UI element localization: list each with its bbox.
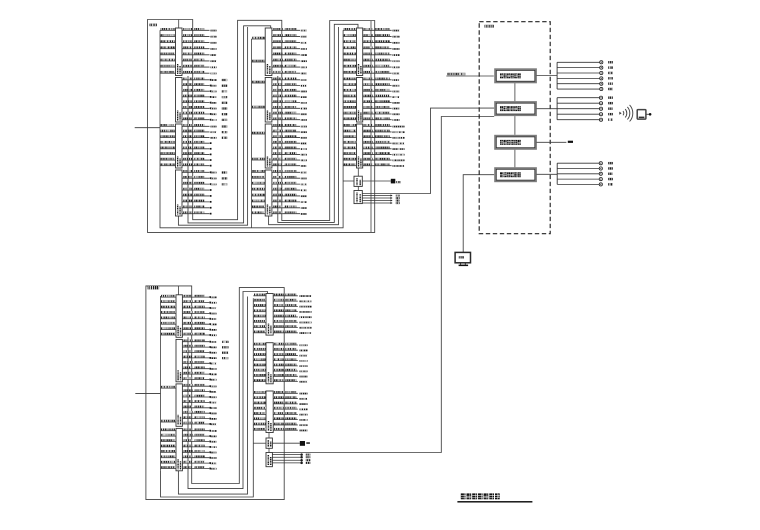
wire branch feed row (343, 147, 356, 149)
wire switch to speaker bus2 (536, 108, 557, 110)
wire branch circuit row (273, 294, 311, 297)
wire branch circuit row (272, 117, 307, 120)
wire branch circuit row (182, 152, 212, 155)
wire branch circuit row (182, 322, 216, 325)
distribution box 5AL3 (266, 391, 273, 433)
speaker fan-out group: zone3 (557, 162, 613, 186)
wire branch feed row (252, 60, 266, 62)
wire branch circuit row (272, 206, 307, 209)
wire loop block1 box4 to block2 (178, 27, 247, 225)
wire branch feed row (343, 34, 356, 36)
wire branch circuit row (363, 130, 405, 133)
wire branch circuit row (363, 163, 405, 166)
wire branch circuit row (182, 311, 216, 314)
wire branch feed row (161, 428, 177, 430)
wire branch circuit row (182, 141, 212, 144)
wire audio output row (272, 462, 310, 465)
wire branch feed row (252, 200, 266, 202)
wire branch circuit row (272, 112, 307, 115)
distribution box 4AL3 (176, 384, 182, 426)
wire module A to module B (357, 186, 359, 190)
wire branch circuit row (272, 106, 307, 109)
wire program host to speaker bus1 (536, 75, 557, 77)
equipment box: central control host (495, 168, 536, 181)
wire branch circuit row (182, 34, 217, 37)
wire branch feed row (160, 65, 176, 67)
wire branch circuit row (273, 358, 307, 361)
wire module C to module D (268, 448, 270, 452)
wire branch circuit row (272, 124, 307, 127)
wire branch circuit row (363, 152, 405, 155)
wire branch feed row (160, 59, 176, 61)
wire branch circuit row (273, 343, 307, 346)
module box 5AT1 (266, 438, 272, 448)
wire branch circuit row (182, 147, 212, 150)
wire branch circuit row (363, 124, 405, 127)
wire branch circuit row (272, 46, 307, 49)
wire branch feed row (161, 311, 177, 313)
wire branch circuit row (182, 176, 227, 180)
wire branch circuit row (182, 206, 212, 209)
monitor / control PC icon (455, 252, 470, 266)
wire branch circuit row (363, 71, 400, 74)
wire branch feed row (253, 374, 266, 376)
wire branch circuit row (363, 83, 400, 86)
wire branch feed row (253, 304, 266, 306)
wire branch circuit row (363, 106, 400, 109)
wire branch feed row (253, 412, 266, 414)
wire branch feed row (343, 83, 356, 85)
wire branch circuit row (272, 89, 307, 92)
distribution box 2AL4 (265, 170, 272, 216)
wire branch circuit row (182, 361, 216, 364)
wire branch circuit row (273, 407, 307, 410)
wire speaker line (557, 61, 613, 64)
wire branch circuit row (273, 353, 307, 356)
wire branch circuit row (182, 345, 228, 349)
distribution box 3AL1 (357, 28, 363, 76)
wire branch circuit row (182, 372, 216, 375)
wire branch circuit row (182, 89, 227, 93)
wire branch feed row (161, 455, 177, 457)
wire branch circuit row (272, 71, 307, 74)
wireless source dot (619, 112, 621, 115)
wire branch circuit row (363, 89, 400, 92)
wire branch feed row (343, 106, 356, 108)
wire audio output row (272, 459, 310, 462)
wire speaker line (557, 113, 613, 116)
wire branch circuit row (272, 141, 307, 144)
wire speaker line (557, 82, 613, 85)
wire branch feed row (161, 466, 177, 468)
wire branch circuit row (363, 117, 400, 120)
wire branch feed row (253, 407, 266, 409)
wire branch circuit row (363, 28, 400, 31)
wire branch circuit row (363, 100, 400, 103)
wire branch feed row (160, 71, 176, 73)
wireless transmitter waves (623, 105, 633, 122)
drawing title (461, 493, 466, 499)
wire branch feed row (161, 386, 177, 388)
wire branch feed row (252, 170, 266, 172)
wire branch feed row (161, 322, 177, 324)
wire branch circuit row (182, 384, 216, 387)
wire branch feed row (253, 402, 266, 404)
wire branch circuit row (272, 194, 307, 197)
wire branch circuit row (182, 366, 216, 369)
wire loop block1 inner to block2 (188, 26, 271, 223)
distribution box 1AL2 (176, 78, 183, 123)
wire branch feed row (343, 135, 356, 137)
wire branch feed row (253, 294, 266, 296)
wire branch feed row (253, 423, 266, 425)
wire branch circuit row (272, 100, 307, 103)
wire branch feed row (161, 439, 177, 441)
wire branch feed row (252, 194, 266, 196)
wire branch circuit row (182, 188, 212, 191)
wire branch feed row (161, 434, 177, 436)
speaker fan-out group: zone2 (557, 96, 613, 121)
wire branch circuit row (273, 309, 311, 312)
wire branch circuit row (273, 428, 307, 431)
wire branch feed row (161, 300, 177, 302)
wire trunk block1 bus to block3 bus (160, 30, 343, 228)
wire branch circuit row (182, 53, 217, 56)
wire branch feed row (160, 147, 176, 149)
wire branch circuit row (363, 46, 400, 49)
wire branch circuit row (273, 402, 307, 405)
wire branch feed row (160, 158, 176, 160)
wire branch feed row (343, 163, 356, 165)
wire branch circuit row (273, 325, 311, 328)
wire branch circuit row (272, 130, 307, 133)
wire branch feed row (343, 152, 356, 154)
wire branch circuit row (182, 130, 227, 134)
wire speaker line (557, 183, 613, 186)
wire branch feed row (253, 358, 266, 360)
equipment box: video server (495, 136, 536, 149)
wire block2 left bus (251, 39, 253, 228)
wire branch feed row (343, 100, 356, 102)
wire branch circuit row (182, 411, 216, 414)
wire branch circuit row (273, 396, 307, 399)
wire branch circuit row (272, 182, 307, 185)
wire branch feed row (253, 343, 266, 345)
title underline (457, 501, 532, 503)
wire monitor to control host (463, 175, 494, 253)
wire speaker line (557, 118, 613, 121)
wire branch circuit row (273, 299, 311, 302)
dashed equipment room boundary (479, 22, 550, 234)
wire branch feed row (253, 299, 266, 301)
distribution box 3AL2 (357, 78, 363, 123)
module box 3AT2 (354, 191, 362, 204)
wire branch circuit row (182, 163, 212, 166)
wire branch feed row (253, 396, 266, 398)
wire speaker line (557, 102, 613, 105)
wire branch circuit row (182, 194, 212, 197)
wire branch feed row (252, 81, 266, 83)
wire branch circuit row (273, 412, 307, 415)
wire branch feed row (343, 71, 356, 73)
wire branch circuit row (182, 135, 227, 139)
wire block4 bus to block5 bus (161, 298, 254, 497)
wire branch circuit row (272, 170, 307, 173)
equipment box: network switch (495, 102, 536, 115)
wire branch feed row (252, 106, 266, 108)
wire branch feed row (160, 152, 176, 154)
wire branch circuit row (182, 450, 216, 453)
wire block3 inner right vertical (370, 21, 372, 232)
wire branch circuit row (273, 374, 307, 377)
wire control output row (362, 202, 399, 204)
room label (485, 25, 494, 28)
wire branch circuit row (272, 176, 307, 179)
wire branch feed row (160, 135, 176, 137)
wire branch feed row (160, 28, 176, 30)
wire branch feed row (161, 420, 177, 422)
wire branch circuit row (182, 455, 216, 458)
wire branch circuit row (363, 78, 400, 81)
wire speaker line (557, 71, 613, 74)
wire branch circuit row (182, 59, 217, 62)
wire module A to speaker terminal (362, 180, 391, 182)
wire video server output (536, 141, 566, 143)
wire branch feed row (160, 34, 176, 36)
wire branch circuit row (182, 416, 216, 419)
speaker fan-out group: zone1 (557, 61, 613, 91)
wire branch circuit row (363, 95, 400, 98)
wire loop block2 box4 to block3 (269, 27, 339, 225)
wire loop block4 inner to block5 (188, 292, 268, 489)
wire branch circuit row (273, 417, 307, 420)
wire branch feed row (161, 445, 177, 447)
wire branch circuit row (182, 327, 216, 330)
wire branch circuit row (363, 34, 400, 37)
wire branch circuit row (182, 124, 227, 128)
wire branch feed row (343, 158, 356, 160)
wire branch circuit row (182, 211, 212, 214)
distribution box 2AL3 (265, 124, 272, 168)
speaker terminal (filled) bottom (300, 441, 310, 446)
wire branch feed row (343, 95, 356, 97)
wire branch feed row (161, 295, 177, 297)
wire branch circuit row (182, 65, 217, 68)
wire speaker line (557, 172, 613, 175)
wire branch feed row (252, 188, 266, 190)
wire branch circuit row (182, 434, 216, 437)
wire branch feed row (252, 37, 266, 39)
wire branch circuit row (363, 40, 400, 43)
wire branch feed row (253, 325, 266, 327)
distribution box 4AL1 (176, 295, 182, 338)
wireless receiver device (637, 110, 651, 120)
wire branch circuit row (182, 439, 216, 442)
wire branch circuit row (182, 428, 216, 431)
wire branch circuit row (272, 34, 307, 37)
wire branch circuit row (272, 158, 307, 161)
wire speaker line (557, 66, 613, 69)
wire branch circuit row (272, 135, 307, 138)
wire branch feed row (343, 124, 356, 126)
wire branch circuit row (272, 163, 307, 166)
wire branch circuit row (273, 369, 307, 372)
distribution box 1AL1 (176, 28, 183, 76)
wire ring around bottom riser blocks (146, 286, 284, 500)
wire branch circuit row (272, 40, 307, 43)
wire branch feed row (253, 320, 266, 322)
wire speaker line (557, 87, 613, 90)
wire branch feed row (160, 141, 176, 143)
wire branch circuit row (182, 46, 217, 49)
wire branch circuit row (182, 83, 227, 87)
wire branch feed row (253, 315, 266, 317)
wire branch feed row (252, 176, 266, 178)
wire branch circuit row (182, 466, 216, 469)
wire branch feed row (253, 428, 266, 430)
distribution box 3AL3 (357, 124, 363, 168)
wire branch circuit row (182, 78, 227, 82)
distribution box 5AL1 (266, 294, 273, 336)
wire branch circuit row (272, 28, 307, 31)
wire block1 box1 top feed (178, 20, 180, 29)
wire branch feed row (161, 333, 177, 335)
wire branch feed row (343, 130, 356, 132)
wire branch circuit row (272, 59, 307, 62)
wire branch feed row (161, 450, 177, 452)
wire branch circuit row (272, 188, 307, 191)
distribution box 4AL4 (176, 428, 182, 470)
wire branch circuit row (272, 211, 307, 214)
wire branch circuit row (182, 461, 216, 464)
wire branch circuit row (363, 135, 405, 138)
wire branch circuit row (272, 147, 307, 150)
wire branch feed row (252, 132, 266, 134)
wire branch circuit row (363, 59, 400, 62)
wire branch feed row (160, 163, 176, 165)
wire branch circuit row (182, 339, 228, 343)
wire speaker line (557, 96, 613, 99)
wire box3 bottom to module A (357, 168, 359, 176)
equipment box: program play host (495, 69, 536, 82)
wire branch feed row (343, 78, 356, 80)
distribution box 2AL1 (265, 28, 272, 76)
wire branch circuit row (182, 158, 212, 161)
distribution box 1AL3 (176, 124, 183, 168)
wire branch circuit row (182, 100, 227, 104)
wire branch feed row (343, 141, 356, 143)
wire branch feed row (343, 53, 356, 55)
wire speaker line (557, 107, 613, 110)
wire branch feed row (343, 28, 356, 30)
wire branch circuit row (363, 112, 400, 115)
wire speaker line (557, 162, 613, 165)
wire branch circuit row (363, 53, 400, 56)
wire branch feed row (343, 112, 356, 114)
wire branch feed row (160, 40, 176, 42)
wire bus to module A (343, 180, 354, 182)
wire branch circuit row (182, 395, 216, 398)
wire branch feed row (161, 317, 177, 319)
wire branch feed row (343, 59, 356, 61)
wire bus to module C (253, 442, 266, 444)
wire branch circuit row (273, 364, 307, 367)
wire speaker line (557, 77, 613, 80)
wire loop block2 inner to block3 (278, 24, 358, 222)
wire branch circuit row (272, 83, 307, 86)
wire block5 module to network switch (long) (272, 117, 494, 453)
wire branch circuit row (182, 106, 227, 110)
wire branch circuit row (363, 147, 405, 150)
wire branch circuit row (182, 356, 228, 360)
wire speaker line (557, 178, 613, 181)
wire branch feed row (252, 182, 266, 184)
distribution box 1AL4 (176, 170, 183, 216)
wire branch circuit row (182, 333, 216, 336)
wire audio output row (272, 453, 310, 456)
module box 3AT1 (354, 176, 362, 186)
wire branch circuit row (363, 65, 400, 68)
speaker terminal (filled) (391, 179, 401, 184)
wire branch circuit row (182, 406, 216, 409)
wire branch circuit row (182, 40, 217, 43)
wire branch circuit row (272, 95, 307, 98)
wire branch circuit row (363, 141, 405, 144)
wire control output row (362, 199, 399, 201)
wire branch feed row (161, 461, 177, 463)
wire audio output row (272, 456, 310, 459)
wire branch circuit row (182, 117, 227, 121)
wire branch feed row (253, 309, 266, 311)
wire branch circuit row (182, 182, 227, 186)
wire branch feed row (253, 353, 266, 355)
wire branch circuit row (273, 304, 311, 307)
wire branch feed row (253, 369, 266, 371)
wire branch feed row (160, 130, 176, 132)
distribution box 4AL2 (176, 339, 182, 381)
wire branch feed row (253, 331, 266, 333)
wire branch circuit row (182, 112, 227, 116)
wire control output row (362, 197, 399, 199)
feeder cable into block4 bus (135, 392, 160, 394)
wire branch feed row (161, 306, 177, 308)
wire block4 left bus (160, 296, 162, 471)
wire branch circuit row (182, 377, 216, 380)
wire ring around top riser blocks (148, 20, 375, 233)
wire between equipment boxes (514, 83, 516, 101)
wire branch feed row (343, 46, 356, 48)
wire branch circuit row (273, 348, 307, 351)
riser block4 label -2AKS (148, 286, 160, 289)
wire module C to speaker terminal (272, 442, 299, 444)
wire branch circuit row (182, 170, 227, 174)
wire branch circuit row (273, 320, 311, 323)
wire branch circuit row (272, 200, 307, 203)
wire branch circuit row (182, 389, 216, 392)
wire branch feed row (252, 211, 266, 213)
wire block1 left bus (159, 30, 161, 168)
wire branch circuit row (182, 317, 216, 320)
wire branch feed row (253, 417, 266, 419)
wire branch feed row (160, 124, 176, 126)
wire branch feed row (253, 391, 266, 393)
wire loop block4 box4 to block5 (178, 297, 247, 495)
wire branch circuit row (273, 391, 307, 394)
wire branch circuit row (273, 379, 307, 382)
wire branch circuit row (182, 306, 216, 309)
wire branch feed row (343, 40, 356, 42)
wire speaker line (557, 167, 613, 170)
